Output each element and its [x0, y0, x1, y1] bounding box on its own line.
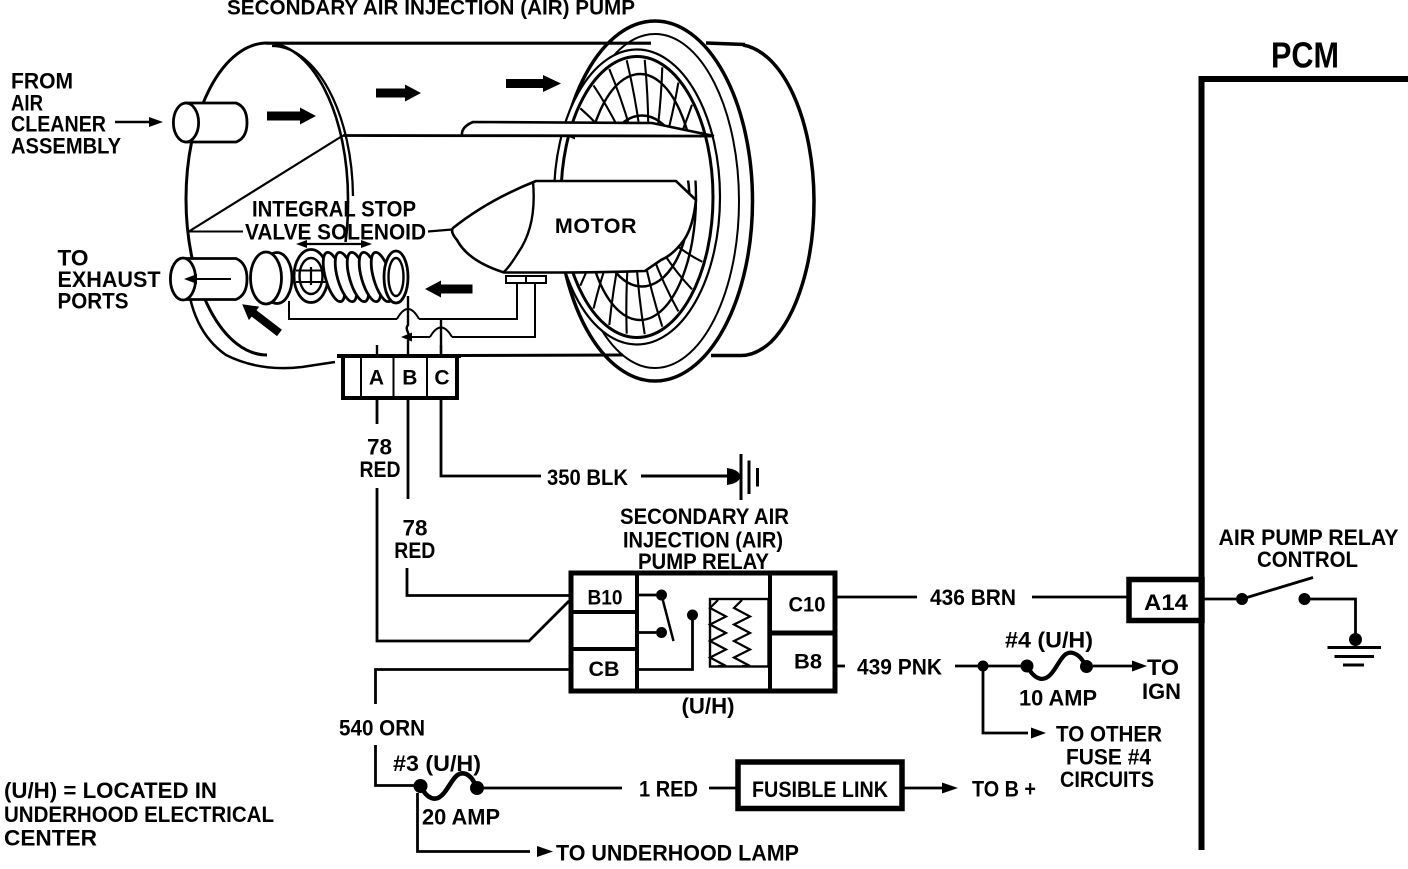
pump fan inner shroud [584, 74, 696, 320]
label TO OTHER FUSE #4 CIRCUITS [1056, 722, 1162, 793]
wire from motor tab 2 [452, 283, 535, 337]
wire to B+ [902, 783, 958, 794]
wire 78 RED pin A upper [376, 398, 379, 424]
connector pin stubs above [377, 345, 441, 356]
label AIR PUMP RELAY CONTROL [1219, 525, 1399, 572]
svg-text:PCM: PCM [1271, 35, 1339, 76]
wire 540 ORN from CB [376, 670, 572, 705]
svg-text:FUSE #4: FUSE #4 [1066, 745, 1152, 770]
label SECONDARY AIR INJECTION (AIR) PUMP RELAY [620, 504, 789, 574]
fuse F4 #4 10A [1021, 653, 1094, 679]
wire hop 1 [397, 309, 419, 319]
svg-text:1 RED: 1 RED [639, 777, 698, 802]
flow arrow inlet [267, 108, 316, 125]
pump body left face [186, 43, 348, 355]
inlet tube [173, 103, 247, 142]
svg-text:ASSEMBLY: ASSEMBLY [11, 134, 121, 159]
pump outlet duct [462, 122, 714, 136]
pump body top line [266, 42, 651, 45]
svg-text:540 ORN: 540 ORN [339, 716, 425, 741]
motor terminal tabs [506, 276, 546, 283]
label INTEGRAL STOP VALVE SOLENOID [245, 197, 426, 245]
relay coil [710, 599, 769, 667]
wire 436 BRN left [835, 596, 917, 599]
svg-text:TO: TO [1147, 655, 1179, 680]
wire 350 BLK right [641, 475, 729, 478]
svg-text:RED: RED [394, 538, 435, 563]
motor housing [452, 181, 696, 273]
wire 78 RED pin B lower [407, 568, 571, 596]
svg-text:A: A [369, 367, 384, 390]
svg-text:436 BRN: 436 BRN [930, 585, 1016, 610]
wire 439 PNK [955, 665, 1027, 668]
connector ABC shell [343, 356, 457, 398]
svg-text:20 AMP: 20 AMP [422, 805, 500, 830]
svg-text:C: C [434, 367, 449, 390]
pump body inner rim arc [272, 46, 353, 196]
svg-text:CIRCUITS: CIRCUITS [1060, 767, 1154, 792]
flow arrow top right [506, 75, 561, 92]
svg-text:FUSIBLE LINK: FUSIBLE LINK [752, 777, 888, 802]
pump interior diagonal [188, 136, 343, 233]
wire pin C riser [440, 319, 442, 354]
svg-text:CB: CB [589, 657, 620, 681]
svg-text:10 AMP: 10 AMP [1019, 686, 1097, 711]
pointer valve solenoid left [188, 231, 243, 233]
pump fan hub [595, 116, 690, 287]
svg-text:SECONDARY AIR: SECONDARY AIR [620, 504, 789, 529]
svg-text:TO B +: TO B + [972, 777, 1036, 802]
pump interior shelf line [343, 134, 714, 137]
label 78 RED (B) [394, 516, 435, 564]
pump fan blades [571, 60, 703, 334]
label TO EXHAUST PORTS [58, 246, 162, 314]
relay left cell dividers [571, 612, 637, 649]
wire to IGN [1093, 661, 1147, 672]
wire 350 BLK left [441, 398, 541, 476]
fuse F3 #3 20A [414, 773, 485, 798]
outlet tube [170, 258, 247, 300]
outlet tube arrow [184, 274, 231, 284]
wire to other fuse 4 circuits [983, 671, 1046, 739]
svg-text:(U/H): (U/H) [682, 694, 735, 719]
wire solenoid channel [289, 301, 397, 319]
relay inner column walls [637, 573, 770, 691]
pump fan shroud ring [558, 21, 753, 381]
wire pin B riser [407, 296, 410, 354]
svg-text:CONTROL: CONTROL [1257, 547, 1358, 572]
label TO IGN [1142, 655, 1181, 704]
svg-text:CENTER: CENTER [4, 826, 97, 851]
pump fan wheel rim [554, 50, 720, 345]
connector A14 box [1129, 580, 1202, 621]
svg-text:TO UNDERHOOD LAMP: TO UNDERHOOD LAMP [556, 841, 799, 865]
wire to underhood lamp [418, 793, 554, 857]
svg-text:B10: B10 [588, 586, 623, 610]
relay common post to CB [637, 610, 698, 670]
relay switch blade [662, 595, 674, 641]
arrow from air cleaner [115, 117, 163, 127]
svg-text:PORTS: PORTS [58, 289, 129, 314]
wire hop 2 [430, 328, 452, 338]
PCM driver switch [1204, 578, 1356, 635]
wire 436 BRN right [1032, 596, 1129, 599]
PCM boundary line [1199, 76, 1408, 850]
svg-text:PUMP RELAY: PUMP RELAY [638, 549, 769, 574]
svg-text:439 PNK: 439 PNK [857, 655, 942, 680]
connector cell walls [361, 356, 427, 398]
svg-text:78: 78 [403, 516, 428, 541]
label FROM AIR CLEANER ASSEMBLY [11, 69, 121, 159]
wire B8 stub [835, 665, 845, 668]
wire 540 ORN lower [376, 745, 415, 786]
svg-text:#4 (U/H): #4 (U/H) [1005, 628, 1093, 653]
svg-text:C10: C10 [789, 593, 826, 617]
svg-text:(U/H) = LOCATED IN: (U/H) = LOCATED IN [4, 778, 217, 803]
relay switch contact lower [637, 627, 667, 638]
pump rear end cap [706, 43, 814, 356]
label 78 RED (A) [360, 435, 401, 483]
svg-text:UNDERHOOD ELECTRICAL: UNDERHOOD ELECTRICAL [4, 802, 274, 827]
wire 1 RED right [709, 787, 738, 790]
ground G1 (350 BLK) [727, 454, 758, 500]
svg-text:IGN: IGN [1142, 679, 1181, 704]
svg-text:MOTOR: MOTOR [555, 214, 637, 238]
solenoid spring coil [319, 250, 408, 304]
svg-text:350 BLK: 350 BLK [547, 465, 628, 490]
relay K1 box [571, 573, 835, 691]
svg-text:INTEGRAL STOP: INTEGRAL STOP [252, 197, 416, 222]
relay right cell divider [770, 631, 835, 636]
solenoid valve disc [251, 252, 293, 304]
ground G2 (PCM) [1328, 633, 1382, 665]
motor front face arc [504, 182, 534, 272]
relay switch contact from B10 [637, 590, 667, 601]
junction node 439 PNK [978, 661, 989, 672]
svg-text:SECONDARY AIR INJECTION (AIR): SECONDARY AIR INJECTION (AIR) PUMP [227, 0, 635, 20]
connector pin letters [369, 367, 450, 390]
wire channel to motor tab 1 [419, 283, 517, 319]
svg-text:TO OTHER: TO OTHER [1056, 722, 1162, 747]
flow arrow to solenoid (left) [425, 281, 473, 298]
pump mid band mask [575, 137, 700, 181]
flow arrow top mid [376, 85, 421, 102]
svg-text:B8: B8 [794, 650, 822, 674]
flow arrow exhaust diagonal [237, 298, 285, 340]
svg-text:RED: RED [360, 457, 401, 482]
svg-text:#3 (U/H): #3 (U/H) [393, 751, 481, 776]
solenoid core [294, 250, 328, 303]
connector top line [337, 354, 461, 358]
pump body bottom lip [187, 272, 336, 368]
wire 78 RED pin A lower [377, 488, 569, 641]
pump body bottom line [458, 354, 623, 358]
wire 1 RED left [484, 787, 622, 790]
svg-text:B: B [402, 367, 417, 390]
fusible link box [738, 762, 902, 809]
svg-text:A14: A14 [1144, 590, 1189, 615]
pointer valve solenoid right [428, 230, 452, 232]
svg-text:VALVE SOLENOID: VALVE SOLENOID [245, 220, 426, 245]
wire channel left end [401, 333, 430, 342]
wire 78 RED pin B upper [407, 398, 410, 499]
note (U/H) legend [4, 778, 274, 851]
svg-text:78: 78 [367, 435, 392, 460]
solenoid travel double arrow [296, 240, 372, 248]
